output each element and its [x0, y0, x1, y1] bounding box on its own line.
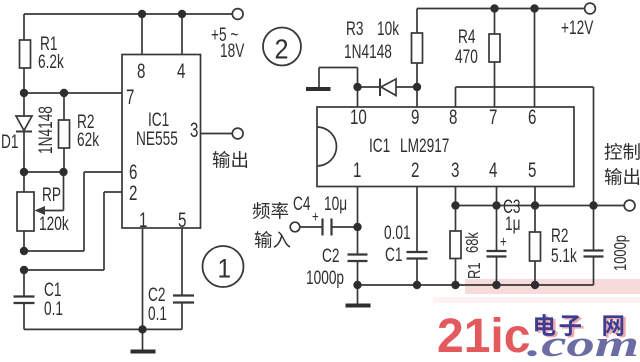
- svg-text:1: 1: [353, 157, 361, 181]
- svg-text:1μ: 1μ: [505, 213, 520, 235]
- potentiometer RP: [23, 172, 25, 192]
- wire pin6 to rail: [84, 171, 122, 173]
- wire pin1 down: [142, 228, 144, 329]
- circled number 2: [263, 28, 301, 66]
- wire mid bus y205: [456, 205, 594, 207]
- capacitor C4: [300, 226, 323, 228]
- label shuru input: [255, 231, 272, 248]
- op IC1 NE555 box: [122, 55, 201, 229]
- svg-text:0.1: 0.1: [44, 298, 63, 320]
- svg-text:470: 470: [455, 46, 478, 68]
- wire pin4 stub: [181, 14, 183, 55]
- wire pin2 to rail: [104, 191, 122, 193]
- svg-text:6.2k: 6.2k: [38, 51, 64, 73]
- svg-text:1000p: 1000p: [306, 267, 344, 289]
- svg-text:2: 2: [411, 157, 419, 181]
- diode D1: [23, 93, 25, 116]
- wire top rail left circuit: [24, 13, 232, 15]
- ground right circuit: [357, 285, 359, 304]
- svg-text:RP: RP: [42, 184, 61, 206]
- svg-text:R3: R3: [346, 18, 363, 40]
- resistor R4: [494, 9, 496, 35]
- svg-text:1: 1: [218, 254, 232, 283]
- wire pin8 stub: [141, 14, 143, 55]
- label pinlv freq: [253, 202, 270, 219]
- RP wiper arrow: [63, 172, 65, 211]
- wire top rail right circuit: [417, 8, 585, 10]
- wire bottom rail: [24, 328, 182, 330]
- svg-text:5: 5: [178, 207, 186, 231]
- wire pin6 top: [534, 9, 536, 108]
- label shuchu output right: [605, 168, 622, 185]
- svg-text:1N4148: 1N4148: [35, 106, 57, 154]
- svg-text:IC1: IC1: [369, 135, 390, 157]
- svg-text:R2: R2: [551, 225, 568, 247]
- svg-text:0.1: 0.1: [148, 303, 167, 325]
- IC notch: [317, 127, 336, 166]
- svg-text:.com: .com: [527, 324, 639, 362]
- wire pin4 down + capacitor C3: [496, 187, 498, 252]
- wire pin3 output: [201, 133, 233, 135]
- logo dianziwang blue: [535, 314, 555, 336]
- svg-text:R1: R1: [465, 262, 485, 279]
- svg-text:2: 2: [275, 33, 289, 65]
- svg-text:D1: D1: [1, 131, 18, 153]
- wire pin8 bus to output: [455, 87, 457, 107]
- terminal +5-18V: [232, 9, 243, 20]
- svg-text:C1: C1: [385, 244, 402, 266]
- svg-text:8: 8: [137, 58, 145, 82]
- wire pin7 horizontal: [24, 92, 122, 94]
- svg-text:3: 3: [451, 157, 459, 181]
- wire pin3 down + resistor R1 68k: [455, 187, 457, 232]
- wire pin9 stub: [416, 87, 418, 107]
- svg-text:7: 7: [489, 104, 497, 128]
- svg-text:5.1k: 5.1k: [551, 245, 577, 267]
- svg-text:2: 2: [129, 180, 137, 204]
- label kongzhi control: [605, 143, 622, 160]
- terminal control output: [624, 200, 635, 211]
- wire R1 to node: [23, 68, 25, 93]
- wire pin5 down + resistor R2 5.1k: [534, 187, 536, 233]
- svg-text:+12V: +12V: [561, 17, 593, 39]
- junction dots left: [20, 10, 186, 334]
- wire rail to C1: [23, 270, 25, 296]
- svg-text:10k: 10k: [377, 18, 400, 40]
- terminal +12V: [585, 3, 596, 14]
- svg-text:5: 5: [528, 157, 536, 181]
- svg-text:1000p: 1000p: [611, 235, 631, 271]
- svg-text:LM2917: LM2917: [400, 135, 449, 157]
- svg-text:6: 6: [528, 104, 536, 128]
- junction dots right: [353, 4, 597, 289]
- svg-text:10μ: 10μ: [324, 193, 347, 215]
- svg-text:62k: 62k: [77, 129, 100, 151]
- circled number 1: [203, 246, 244, 287]
- resistor R3: [416, 9, 418, 34]
- label shuchu output left: [213, 151, 230, 168]
- svg-text:1: 1: [139, 207, 147, 231]
- ground left circuit: [142, 329, 144, 349]
- terminal output left: [232, 128, 243, 139]
- terminal freq input: [290, 222, 300, 232]
- svg-text:120k: 120k: [39, 213, 69, 235]
- capacitor C2 1000p: [348, 253, 368, 255]
- wire bottom bus right: [358, 284, 594, 286]
- wire left rail upper: [23, 14, 25, 40]
- watermark pink band: [465, 279, 640, 294]
- svg-text:R4: R4: [458, 26, 475, 48]
- svg-text:4: 4: [489, 157, 497, 181]
- svg-text:68k: 68k: [463, 232, 483, 253]
- svg-text:C2: C2: [322, 245, 339, 267]
- svg-text:1N4148: 1N4148: [344, 41, 392, 63]
- capacitor C1: [14, 295, 35, 297]
- svg-text:+: +: [312, 207, 319, 225]
- wire node row y172: [24, 171, 64, 173]
- wire pin10 stub: [357, 87, 359, 107]
- wire pin1 down: [357, 187, 359, 255]
- svg-text:21ic: 21ic: [437, 310, 530, 362]
- svg-text:3: 3: [190, 117, 198, 141]
- svg-text:18V: 18V: [220, 40, 244, 62]
- svg-text:+: +: [500, 232, 507, 250]
- capacitor C2: [181, 228, 183, 296]
- wire pin2 down + capacitor C1 0.01: [416, 187, 418, 253]
- svg-text:C4: C4: [293, 193, 310, 215]
- input electrode plate: [306, 87, 331, 91]
- op IC1 LM2917 box: [317, 107, 574, 187]
- resistor R2: [63, 93, 65, 120]
- svg-text:0.01: 0.01: [384, 222, 411, 244]
- output tap + capacitor 1000p right: [594, 205, 625, 207]
- logo dianziwang red shadow: [538, 316, 558, 338]
- svg-text:NE555: NE555: [136, 128, 178, 150]
- svg-text:10: 10: [350, 104, 367, 128]
- resistor R1: [20, 40, 31, 68]
- svg-text:7: 7: [126, 84, 134, 108]
- svg-text:8: 8: [449, 104, 457, 128]
- diode 1N4148 right: [358, 86, 418, 88]
- svg-text:9: 9: [411, 104, 419, 128]
- svg-text:4: 4: [177, 58, 185, 82]
